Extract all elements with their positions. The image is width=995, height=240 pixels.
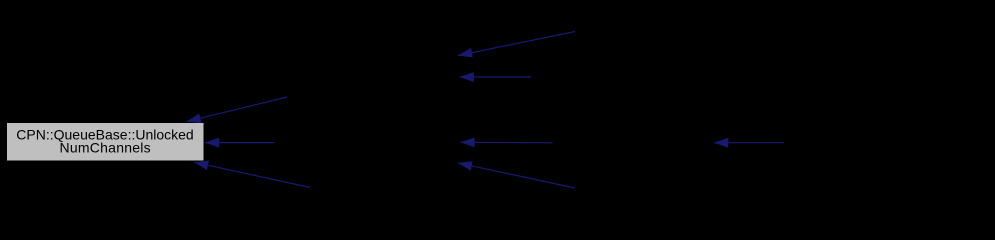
edge caller8 -> caller6 (714, 142, 784, 144)
edge caller4 -> caller1 (458, 32, 575, 56)
node CPN::QueueBase::UnlockedNumChannels (current function, grey) (7, 123, 204, 161)
edge caller2 -> UnlockedNumChannels (205, 142, 275, 144)
svg-text:NumChannels: NumChannels (59, 140, 150, 156)
edge caller3 -> UnlockedNumChannels (194, 162, 310, 187)
edge caller7 -> caller3 (458, 163, 575, 188)
edge caller6 -> caller2 (460, 141, 552, 144)
edge caller5 -> caller1 (460, 76, 532, 78)
edge caller1 -> UnlockedNumChannels (187, 97, 288, 122)
